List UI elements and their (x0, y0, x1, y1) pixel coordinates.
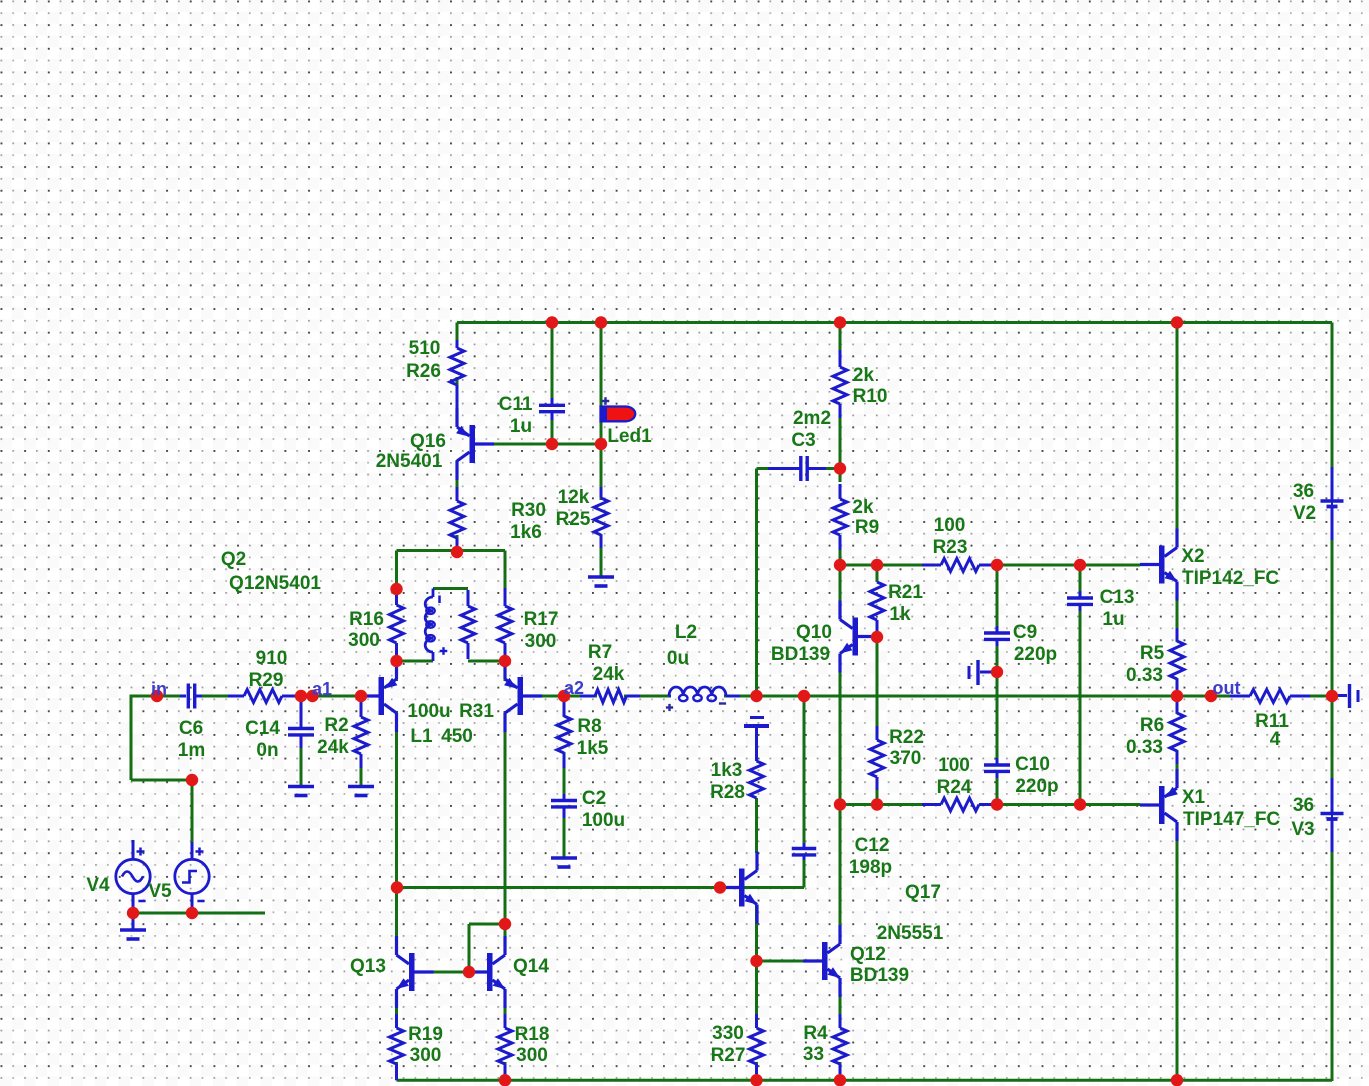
svg-text:TIP147_FC: TIP147_FC (1183, 809, 1280, 830)
node right emitter join (499, 655, 511, 667)
node Q10 base (871, 631, 883, 643)
resistor R28 (1k3) (750, 761, 764, 798)
wire: X2/X1 outer column x=1177 (1176, 323, 1179, 532)
svg-text:Led1: Led1 (607, 426, 652, 447)
svg-text:C9: C9 (1013, 622, 1037, 643)
svg-text:R26: R26 (406, 361, 441, 382)
battery V3 (36) (1331, 778, 1334, 814)
resistor R29 (910) (228, 695, 244, 698)
svg-text:36: 36 (1293, 795, 1314, 816)
svg-text:R29: R29 (249, 670, 284, 691)
svg-text:4: 4 (1270, 729, 1281, 750)
svg-text:C2: C2 (582, 788, 606, 809)
resistor R19 (300) (395, 1014, 398, 1028)
svg-text:330: 330 (712, 1023, 744, 1044)
capacitor C9 (220p) (996, 626, 999, 633)
L2 plus mark (666, 706, 673, 708)
voltage source V4 (sine) (132, 840, 135, 860)
node a1 label (306, 690, 318, 702)
svg-text:L2: L2 (675, 622, 697, 643)
svg-text:C13: C13 (1100, 587, 1135, 608)
node R27 bottom (750, 1074, 762, 1086)
transistor Q16 2N5401 (PNP) (470, 425, 476, 463)
svg-text:2N5401: 2N5401 (376, 451, 443, 472)
svg-text:Q14: Q14 (513, 956, 549, 977)
svg-text:X2: X2 (1181, 546, 1204, 567)
node a1-C14 (295, 690, 307, 702)
svg-text:300: 300 (348, 630, 380, 651)
wire: main mid rail y=696 (131, 695, 186, 698)
current probe at out node (1338, 694, 1347, 697)
resistor R24 (100) (922, 803, 941, 806)
svg-text:V3: V3 (1291, 819, 1314, 840)
transistor Q2b (PNP input pair right) (518, 677, 524, 715)
capacitor C11 (1u) (551, 398, 554, 405)
svg-text:TIP142_FC: TIP142_FC (1182, 568, 1279, 589)
svg-text:R24: R24 (937, 777, 972, 798)
resistor R17 (300) (504, 588, 507, 606)
wire: C9/C10 column x=997 (996, 565, 999, 628)
svg-text:510: 510 (409, 338, 441, 359)
node left emitter join (390, 655, 402, 667)
capacitor C3 (2m2) (768, 467, 801, 470)
node feedback tap (391, 881, 403, 893)
node a2 (558, 690, 570, 702)
capacitor C14 (0n) (300, 702, 303, 729)
svg-text:a2: a2 (564, 678, 584, 698)
svg-text:BD139: BD139 (850, 965, 909, 986)
node out label (1205, 690, 1217, 702)
svg-text:100u: 100u (582, 810, 625, 831)
capacitor C10 (220p) (996, 758, 999, 765)
wire: input source loop (130, 695, 133, 781)
node in (151, 690, 163, 702)
node R21 top (871, 559, 883, 571)
node mirror base tie (463, 966, 475, 978)
svg-text:R17: R17 (524, 609, 559, 630)
wire: inner block joins (433, 587, 468, 590)
svg-text:C12: C12 (855, 835, 890, 856)
transistor Q12 BD139 (NPN) (822, 942, 828, 980)
node V5 top (186, 774, 198, 786)
node a1-R2 (355, 690, 367, 702)
resistor R11 (4) (1230, 695, 1250, 698)
svg-text:Q2: Q2 (221, 549, 246, 570)
wire: inner top wire y=552 (397, 549, 506, 552)
svg-text:24k: 24k (317, 737, 349, 758)
svg-text:C3: C3 (791, 430, 815, 451)
svg-text:1k: 1k (889, 604, 911, 625)
ground C2 (551, 856, 577, 860)
svg-text:R4: R4 (803, 1023, 828, 1044)
svg-text:R18: R18 (515, 1024, 550, 1045)
capacitor C12 (198p) (803, 843, 806, 849)
wire: y=888 rail (397, 886, 721, 889)
resistor R27 (330) (755, 1014, 758, 1028)
node C10 bottom (991, 798, 1003, 810)
svg-text:Q10: Q10 (796, 622, 832, 643)
node C12 top (798, 690, 810, 702)
node R9 bottom rail (834, 559, 846, 571)
resistor R7 (24k) (580, 695, 595, 698)
node Q17 emitter - Q12 base (750, 955, 762, 967)
node X1 collector bottom (1171, 1074, 1183, 1086)
node R10 top (834, 316, 846, 328)
wire: upper mid rail y=565 (840, 564, 941, 567)
wire: Led1/R25 column x=601 (600, 323, 603, 407)
ground R25 (588, 575, 614, 579)
svg-text:Q16: Q16 (410, 431, 446, 452)
resistor R23 (100) (922, 564, 941, 567)
wire: Q17-Q12 base wire y=961 (757, 960, 804, 963)
svg-text:Q12: Q12 (850, 944, 886, 965)
svg-text:V2: V2 (1293, 503, 1316, 524)
wire: Q16 base wire y=444 (494, 443, 601, 446)
svg-text:0u: 0u (667, 648, 689, 669)
node X2 collector rail (1171, 316, 1183, 328)
node L2 out node (750, 690, 762, 702)
wire: Q13/Q14 emitter columns (395, 1008, 398, 1028)
resistor R10 (2k) (839, 350, 842, 367)
svg-text:2k: 2k (852, 497, 874, 518)
node Led1 top (595, 316, 607, 328)
svg-text:2k: 2k (853, 365, 875, 386)
node R30 bottom (451, 546, 463, 558)
node C13 bottom rail (1074, 798, 1086, 810)
transistor Q2a (PNP input pair left) (379, 677, 385, 715)
svg-text:1k3: 1k3 (711, 760, 743, 781)
svg-text:Q17: Q17 (905, 882, 941, 903)
svg-text:0.33: 0.33 (1126, 665, 1163, 686)
transistor Q17 2N5551 (NPN) (739, 869, 745, 907)
resistor R30 (1k6) (456, 487, 459, 501)
wire: right supply rail x=1332 (1331, 323, 1334, 468)
wire: R26-Q16-R30 column x=457 (456, 377, 459, 410)
svg-text:100: 100 (938, 755, 970, 776)
svg-text:1k5: 1k5 (577, 738, 609, 759)
inductor L1 (100u) (432, 589, 435, 598)
svg-text:100u: 100u (407, 701, 450, 722)
svg-text:R16: R16 (349, 609, 384, 630)
svg-text:24k: 24k (593, 664, 625, 685)
svg-text:0n: 0n (256, 740, 278, 761)
wire: lower mid rail y=804.5 (840, 803, 941, 806)
svg-text:R27: R27 (711, 1045, 746, 1066)
inductor L2 (0u) (669, 695, 671, 698)
wire: top supply rail y=323 (457, 321, 1332, 324)
resistor R26 (510) (456, 340, 459, 348)
resistor R5 (0.33) (1176, 628, 1179, 641)
svg-text:220p: 220p (1014, 644, 1057, 665)
svg-text:out: out (1213, 678, 1241, 698)
LED Led1 (601, 407, 636, 422)
L2 minus mark (719, 702, 726, 704)
svg-text:300: 300 (516, 1045, 548, 1066)
svg-text:R25: R25 (556, 509, 591, 530)
wire: a2 column x=564 (563, 696, 566, 717)
node R18 bottom (499, 1074, 511, 1086)
svg-text:R10: R10 (853, 386, 888, 407)
battery V2 (36) (1331, 467, 1334, 501)
node C9 bottom probe (991, 666, 1003, 678)
svg-text:R28: R28 (710, 782, 745, 803)
node C3-R9-R10 (834, 462, 846, 474)
ground R2 (348, 785, 374, 789)
capacitor C6 (1m) (180, 695, 186, 698)
resistor R18 (300) (504, 1014, 507, 1028)
svg-text:300: 300 (410, 1045, 442, 1066)
svg-text:R30: R30 (511, 500, 546, 521)
node V4 minus (127, 907, 139, 919)
svg-text:33: 33 (803, 1044, 824, 1065)
svg-text:2N5551: 2N5551 (877, 923, 944, 944)
svg-text:100: 100 (934, 515, 966, 536)
capacitor C13 (1u) (1079, 591, 1082, 598)
svg-text:R5: R5 (1140, 643, 1165, 664)
darlington X1 TIP147_FC (PNP) (1159, 786, 1165, 824)
ground C14 (288, 785, 314, 789)
wire: diff pair collector columns (395, 660, 398, 681)
wire: bottom rail y=1080 (397, 1079, 1333, 1082)
resistor R2 (24k) (360, 702, 363, 717)
svg-text:1m: 1m (178, 740, 205, 761)
svg-text:1u: 1u (510, 416, 532, 437)
node lower rail left (834, 798, 846, 810)
svg-text:R31: R31 (459, 701, 494, 722)
resistor R16 (300) (395, 592, 398, 605)
svg-text:R7: R7 (588, 642, 612, 663)
Led1 plus mark (602, 400, 610, 402)
node R23-C9 (991, 559, 1003, 571)
svg-text:R9: R9 (855, 517, 879, 538)
svg-text:300: 300 (525, 631, 557, 652)
svg-text:450: 450 (441, 726, 473, 747)
svg-text:V5: V5 (148, 881, 172, 902)
series plate element below node (unlabeled cap) (750, 716, 764, 719)
svg-text:X1: X1 (1182, 787, 1206, 808)
resistor R9 (2k) (839, 484, 842, 499)
svg-text:370: 370 (890, 748, 922, 769)
svg-text:C14: C14 (245, 718, 280, 739)
node Q17 base (714, 881, 726, 893)
transistor Q13 (NPN current mirror) (409, 953, 415, 991)
svg-text:2m2: 2m2 (793, 408, 831, 429)
resistor R6 (0.33) (1176, 700, 1179, 713)
svg-text:R23: R23 (933, 537, 968, 558)
node R5-R6 out (1171, 690, 1183, 702)
node R22 bottom (871, 798, 883, 810)
current probe at C9 node (976, 660, 979, 685)
svg-text:Q12N5401: Q12N5401 (229, 573, 321, 594)
svg-text:1u: 1u (1102, 609, 1124, 630)
L1 phase tick (438, 596, 441, 604)
capacitor C2 (100u) (563, 794, 566, 801)
svg-text:1k6: 1k6 (510, 522, 542, 543)
wire: C3 horizontal leads (757, 467, 771, 470)
wire: x=840 column R10-R9-Q10-Q12-R4 (839, 323, 842, 350)
resistor R25 (12k) (600, 487, 603, 498)
node R16 top (390, 583, 402, 595)
resistor R8 (1k5) (563, 702, 566, 716)
node V5 minus (186, 907, 198, 919)
svg-text:220p: 220p (1015, 776, 1058, 797)
svg-text:R8: R8 (577, 716, 601, 737)
svg-text:L1: L1 (410, 726, 433, 747)
svg-text:BD139: BD139 (771, 644, 830, 665)
resistor R4 (33) (839, 1014, 842, 1028)
svg-text:12k: 12k (558, 487, 590, 508)
darlington X2 TIP142_FC (NPN) (1159, 546, 1165, 584)
resistor R31 (450) (467, 590, 470, 606)
node out right rail (1326, 690, 1338, 702)
node C13 top (1074, 559, 1086, 571)
wire: C11 column x=552 (551, 323, 554, 400)
svg-text:R19: R19 (408, 1024, 443, 1045)
svg-text:V4: V4 (86, 875, 110, 896)
wire: x=756.5 column C3-R28-Q17-R27 (755, 469, 758, 697)
svg-text:0.33: 0.33 (1126, 737, 1163, 758)
svg-text:C11: C11 (499, 394, 533, 415)
resistor R22 (370) (876, 726, 879, 740)
svg-text:in: in (151, 679, 167, 699)
L1 plus mark (440, 650, 448, 652)
svg-text:C10: C10 (1015, 754, 1050, 775)
svg-text:Q13: Q13 (350, 956, 386, 977)
ground V4 (120, 928, 146, 932)
transistor Q10 BD139 (NPN) (853, 618, 859, 656)
svg-text:198p: 198p (849, 857, 892, 878)
transistor Q14 (NPN current mirror) (487, 953, 493, 991)
svg-text:R21: R21 (888, 582, 923, 603)
node Q14 collector tie (499, 918, 511, 930)
resistor R21 (1k) (870, 582, 884, 620)
svg-text:a1: a1 (312, 679, 332, 699)
wire: R21/R22 column x=877 (876, 565, 879, 582)
svg-text:C6: C6 (179, 718, 203, 739)
wire: current mirror tie (469, 923, 505, 926)
wire: C13 column x=1080 (1079, 565, 1082, 593)
node C11 bottom (546, 438, 558, 450)
svg-text:R22: R22 (889, 727, 924, 748)
node Led1-R25 (595, 438, 607, 450)
voltage source V5 (pulse) (191, 842, 194, 860)
svg-text:36: 36 (1293, 481, 1314, 502)
svg-text:R6: R6 (1140, 715, 1164, 736)
svg-text:910: 910 (256, 648, 288, 669)
svg-text:R2: R2 (324, 715, 348, 736)
node R4 bottom (834, 1074, 846, 1086)
node C11 top (546, 316, 558, 328)
